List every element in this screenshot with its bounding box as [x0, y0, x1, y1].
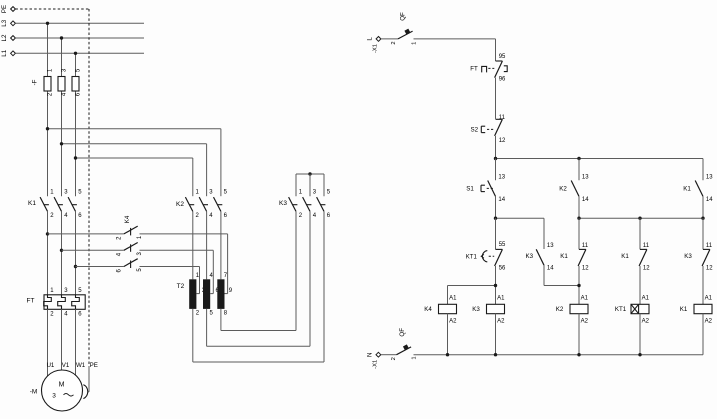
svg-text:1: 1 [412, 42, 418, 45]
svg-text:K1: K1 [621, 253, 629, 260]
svg-text:12: 12 [582, 265, 589, 271]
svg-text:11: 11 [582, 243, 589, 249]
svg-text:S2: S2 [471, 126, 479, 133]
svg-text:L3: L3 [1, 19, 8, 26]
svg-text:A1: A1 [642, 296, 650, 302]
svg-text:N: N [366, 352, 373, 356]
svg-text:K2: K2 [176, 201, 184, 208]
svg-text:11: 11 [499, 115, 506, 121]
svg-text:K3: K3 [526, 253, 534, 260]
svg-text:KT1: KT1 [466, 254, 478, 260]
svg-text:PE: PE [1, 5, 8, 13]
svg-text:11: 11 [706, 243, 713, 249]
svg-text:L: L [367, 37, 374, 41]
svg-text:A2: A2 [642, 319, 650, 325]
svg-text:K1: K1 [28, 200, 36, 207]
svg-text:55: 55 [499, 242, 506, 248]
svg-text:KT1: KT1 [615, 306, 627, 313]
svg-text:FT: FT [27, 298, 35, 305]
svg-text:13: 13 [547, 243, 554, 249]
svg-text:-X1: -X1 [373, 360, 379, 369]
svg-text:A1: A1 [705, 296, 713, 302]
svg-text:L2: L2 [1, 34, 8, 41]
svg-text:K3: K3 [472, 306, 480, 313]
svg-text:-X1: -X1 [373, 44, 379, 53]
svg-text:M: M [59, 382, 65, 389]
svg-text:T2: T2 [177, 283, 185, 290]
svg-text:2: 2 [391, 41, 397, 44]
svg-text:-M: -M [30, 389, 38, 396]
svg-text:K2: K2 [556, 306, 564, 313]
svg-text:FT: FT [470, 66, 478, 73]
svg-text:A1: A1 [581, 296, 589, 302]
svg-text:14: 14 [582, 197, 589, 203]
svg-text:14: 14 [498, 197, 505, 203]
svg-text:A1: A1 [449, 296, 457, 302]
svg-text:12: 12 [499, 138, 506, 144]
svg-text:S1: S1 [466, 185, 474, 192]
svg-text:13: 13 [498, 175, 505, 181]
svg-text:K1: K1 [560, 253, 568, 260]
svg-text:V1: V1 [62, 362, 70, 369]
svg-text:QF: QF [399, 328, 406, 337]
svg-text:1: 1 [411, 356, 417, 359]
svg-text:PE: PE [90, 362, 98, 369]
svg-text:3: 3 [52, 393, 56, 400]
svg-text:QF: QF [399, 12, 406, 21]
svg-text:11: 11 [643, 243, 650, 249]
svg-text:56: 56 [499, 265, 506, 271]
svg-text:K4: K4 [124, 215, 131, 223]
svg-text:W1: W1 [76, 362, 86, 369]
svg-text:14: 14 [547, 265, 554, 271]
svg-text:K3: K3 [279, 200, 287, 207]
svg-text:A2: A2 [705, 319, 713, 325]
svg-text:U1: U1 [46, 362, 54, 369]
svg-text:95: 95 [499, 54, 506, 60]
svg-text:2: 2 [391, 357, 397, 360]
svg-text:13: 13 [706, 175, 713, 181]
svg-text:K1: K1 [680, 306, 688, 313]
svg-text:K3: K3 [684, 253, 692, 260]
svg-text:L1: L1 [1, 49, 8, 56]
svg-text:-F: -F [32, 79, 39, 85]
svg-text:12: 12 [706, 265, 713, 271]
svg-text:K4: K4 [424, 306, 432, 313]
svg-text:13: 13 [582, 175, 589, 181]
svg-text:A2: A2 [449, 319, 457, 325]
svg-text:K2: K2 [559, 186, 567, 193]
svg-text:A2: A2 [497, 319, 505, 325]
svg-text:96: 96 [499, 77, 506, 83]
svg-text:A1: A1 [497, 296, 505, 302]
svg-text:14: 14 [706, 197, 713, 203]
svg-text:K1: K1 [683, 186, 691, 193]
svg-text:A2: A2 [581, 319, 589, 325]
svg-text:12: 12 [643, 265, 650, 271]
